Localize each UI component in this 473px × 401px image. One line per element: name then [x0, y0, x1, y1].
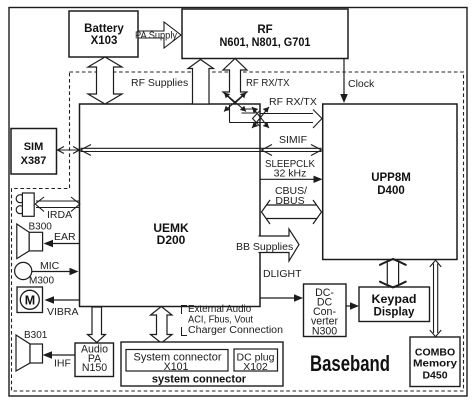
wire elbow from RX/TX arrow	[230, 105, 256, 123]
svg-text:N601, N801, G701: N601, N801, G701	[220, 37, 312, 49]
svg-text:Battery: Battery	[84, 23, 124, 35]
UEMK to system connector arrow	[151, 307, 173, 344]
UPP8M to COMBO arrow	[430, 260, 441, 337]
CBUS/DBUS arrow	[262, 200, 322, 224]
svg-text:M300: M300	[29, 276, 54, 287]
BB Supplies arrow	[259, 229, 300, 261]
SIM X387 box	[11, 129, 57, 175]
RF N601 box	[182, 9, 348, 59]
keypad display box	[359, 287, 430, 322]
svg-text:RF: RF	[257, 24, 272, 36]
crossed arrows X2	[252, 107, 269, 128]
svg-text:RF RX/TX: RF RX/TX	[269, 96, 317, 108]
wire MIC	[32, 268, 79, 275]
system connector X101 box	[126, 350, 228, 372]
RF RX/TX horizontal arrow	[230, 110, 323, 129]
system connector outer box	[121, 342, 283, 386]
speaker B301 icon	[16, 335, 43, 371]
wire SIMIF long bus (SIM to UPP8M over UEMK)	[81, 145, 322, 156]
svg-text:IHF: IHF	[54, 358, 71, 370]
svg-text:External Audio: External Audio	[188, 304, 252, 315]
wire EAR	[44, 240, 80, 247]
wire SIM to UEMK arrow	[58, 147, 80, 154]
IRDA arrow	[35, 197, 80, 212]
svg-text:system connector: system connector	[152, 374, 247, 386]
DC-DC converter N300 box	[304, 284, 347, 337]
wire DC-DC to keypad	[346, 302, 359, 309]
svg-text:B300: B300	[29, 222, 53, 233]
svg-text:SIM: SIM	[24, 141, 44, 153]
svg-text:X101: X101	[164, 361, 189, 373]
PA Supply arrow	[138, 22, 181, 48]
wire VIBRA	[45, 296, 80, 303]
svg-text:RF Supplies: RF Supplies	[131, 77, 188, 89]
UPP8M U D400 box	[323, 104, 457, 260]
wire SLEEPCLK	[260, 176, 323, 183]
svg-text:Baseband: Baseband	[310, 351, 390, 376]
svg-text:N150: N150	[82, 362, 107, 374]
speaker B300 icon	[17, 224, 43, 259]
svg-text:D200: D200	[157, 233, 186, 247]
svg-text:Charger Connection: Charger Connection	[188, 325, 283, 336]
svg-text:D450: D450	[422, 370, 447, 382]
audio PA N150 box	[75, 343, 114, 377]
svg-text:UPP8M: UPP8M	[371, 172, 411, 184]
battery to UEMK supply arrow	[88, 57, 122, 104]
UPP8M to keypad arrow	[380, 259, 406, 287]
svg-text:EAR: EAR	[54, 231, 76, 243]
battery X103 box	[69, 11, 138, 57]
svg-text:ACI, Fbus, Vout: ACI, Fbus, Vout	[188, 315, 253, 326]
leader brackets external audio	[182, 306, 188, 336]
svg-text:RF RX/TX: RF RX/TX	[246, 77, 290, 89]
svg-text:PA Supply: PA Supply	[135, 31, 177, 42]
wire DLIGHT to DC-DC	[260, 294, 303, 301]
svg-text:Display: Display	[374, 307, 416, 319]
svg-text:SIMIF: SIMIF	[279, 134, 307, 146]
svg-text:X103: X103	[91, 35, 118, 47]
svg-text:Memory: Memory	[413, 358, 457, 370]
svg-text:B301: B301	[24, 330, 48, 341]
svg-text:DLIGHT: DLIGHT	[263, 268, 302, 280]
svg-text:32 kHz: 32 kHz	[274, 168, 307, 180]
microphone M300 icon	[15, 262, 32, 279]
svg-text:D400: D400	[377, 185, 405, 197]
RF RX/TX vertical arrow	[223, 59, 247, 104]
svg-text:MIC: MIC	[40, 260, 60, 272]
wire IHF	[43, 351, 76, 358]
svg-text:IRDA: IRDA	[47, 209, 72, 221]
vibra motor icon	[17, 287, 43, 313]
svg-text:X387: X387	[21, 155, 47, 167]
svg-text:Keypad: Keypad	[372, 294, 417, 306]
RF supplies up arrow	[188, 60, 214, 105]
svg-text:X102: X102	[243, 361, 268, 373]
UEMK U D200 box	[80, 104, 261, 307]
IRDA transceiver icon	[16, 193, 34, 216]
baseband dashed boundary	[12, 72, 464, 391]
svg-text:VIBRA: VIBRA	[47, 306, 79, 318]
DC plug X102 box	[234, 349, 278, 371]
clock wire	[340, 59, 348, 104]
svg-text:M: M	[25, 294, 35, 308]
svg-text:Clock: Clock	[348, 78, 375, 90]
crossed arrows X1	[224, 93, 246, 112]
COMBO memory D450 box	[410, 337, 460, 387]
svg-text:N300: N300	[312, 325, 337, 337]
svg-text:BB Supplies: BB Supplies	[236, 241, 293, 253]
UEMK to audio PA arrow	[88, 307, 106, 343]
